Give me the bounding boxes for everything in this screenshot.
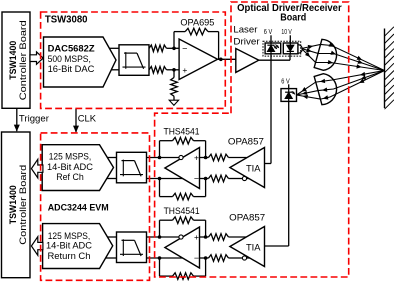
svg-text:−: − xyxy=(182,44,187,54)
svg-text:Driver: Driver xyxy=(233,36,259,47)
svg-text:Ref Ch: Ref Ch xyxy=(56,172,84,183)
svg-text:OPA857: OPA857 xyxy=(228,137,264,148)
svg-text:Controller Board: Controller Board xyxy=(18,20,29,100)
svg-text:Board: Board xyxy=(280,13,306,24)
svg-text:TIA: TIA xyxy=(246,242,261,253)
svg-text:14-Bit ADC: 14-Bit ADC xyxy=(47,162,93,173)
svg-text:+: + xyxy=(182,65,187,75)
svg-text:125 MSPS,: 125 MSPS, xyxy=(49,151,92,162)
svg-text:+: + xyxy=(194,232,199,242)
svg-text:CLK: CLK xyxy=(78,114,97,125)
svg-text:Controller Board: Controller Board xyxy=(18,165,29,245)
svg-text:ADC3244 EVM: ADC3244 EVM xyxy=(48,203,109,214)
svg-text:16-Bit DAC: 16-Bit DAC xyxy=(48,64,95,75)
svg-text:−: − xyxy=(194,253,199,263)
svg-text:Trigger: Trigger xyxy=(19,114,49,125)
svg-text:Laser: Laser xyxy=(233,25,257,36)
svg-text:+: + xyxy=(194,153,199,163)
svg-text:10 V: 10 V xyxy=(281,29,292,36)
svg-text:OPA857: OPA857 xyxy=(229,213,265,224)
svg-text:OPA695: OPA695 xyxy=(180,18,214,29)
svg-text:TIA: TIA xyxy=(246,163,261,174)
svg-text:6 V: 6 V xyxy=(281,79,290,86)
svg-text:6 V: 6 V xyxy=(264,29,273,36)
svg-text:THS4541: THS4541 xyxy=(164,126,200,137)
svg-text:14-Bit ADC: 14-Bit ADC xyxy=(46,241,92,252)
svg-text:−: − xyxy=(194,174,199,184)
svg-text:Return Ch: Return Ch xyxy=(48,251,91,262)
svg-text:THS4541: THS4541 xyxy=(164,206,200,217)
svg-text:TSW3080: TSW3080 xyxy=(45,15,88,26)
